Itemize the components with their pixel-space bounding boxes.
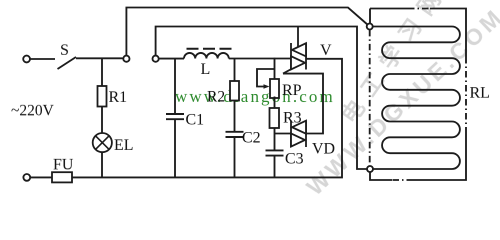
- svg-text:C1: C1: [185, 111, 204, 128]
- wire VD left: [275, 133, 292, 135]
- svg-text:L: L: [201, 61, 211, 78]
- wire: [30, 58, 55, 60]
- svg-text:C2: C2: [242, 129, 261, 146]
- svg-text:VD: VD: [312, 141, 335, 158]
- wire rail: [229, 58, 291, 60]
- node RL top: [367, 24, 373, 30]
- node RL bottom: [367, 166, 373, 172]
- capacitor C2: [226, 129, 261, 177]
- wire: [76, 57, 123, 59]
- resistor R2: [207, 59, 239, 132]
- svg-text:C3: C3: [285, 151, 304, 168]
- wire bottom main: [72, 59, 342, 178]
- svg-text:R2: R2: [207, 88, 225, 105]
- triac V: [283, 27, 332, 74]
- diagonal gray watermark URL: [301, 3, 500, 201]
- svg-text:R1: R1: [108, 89, 127, 106]
- svg-text:V: V: [320, 42, 332, 59]
- connector socket top: [153, 56, 159, 62]
- potentiometer RP: [257, 58, 302, 99]
- wire bottom: [30, 176, 52, 178]
- resistor R3: [270, 97, 302, 151]
- diagonal gray watermark chinese: [333, 0, 454, 129]
- svg-text:FU: FU: [53, 156, 74, 173]
- capacitor C3: [266, 150, 304, 177]
- svg-text:RL: RL: [469, 85, 489, 102]
- lamp EL: [93, 133, 134, 177]
- svg-text:~220V: ~220V: [11, 102, 55, 119]
- terminal top-left: [23, 56, 30, 63]
- wire: [126, 8, 367, 56]
- connector plug top: [123, 56, 129, 62]
- svg-text:S: S: [60, 42, 69, 59]
- fuse FU: [52, 156, 74, 182]
- diac VD: [291, 121, 335, 158]
- heating element RL serpentine: [373, 27, 460, 170]
- wire gate: [283, 74, 323, 134]
- switch S: [58, 57, 77, 69]
- heating element RL box: [370, 9, 490, 181]
- svg-text:EL: EL: [114, 137, 134, 154]
- green watermark url: [175, 87, 335, 107]
- svg-text:RP: RP: [282, 82, 302, 99]
- capacitor C1: [166, 59, 204, 178]
- wire rail: [159, 58, 184, 60]
- resistor R1: [98, 58, 128, 133]
- terminal bottom-left: [23, 174, 30, 181]
- inductor L: [184, 49, 232, 78]
- wire: [156, 27, 367, 170]
